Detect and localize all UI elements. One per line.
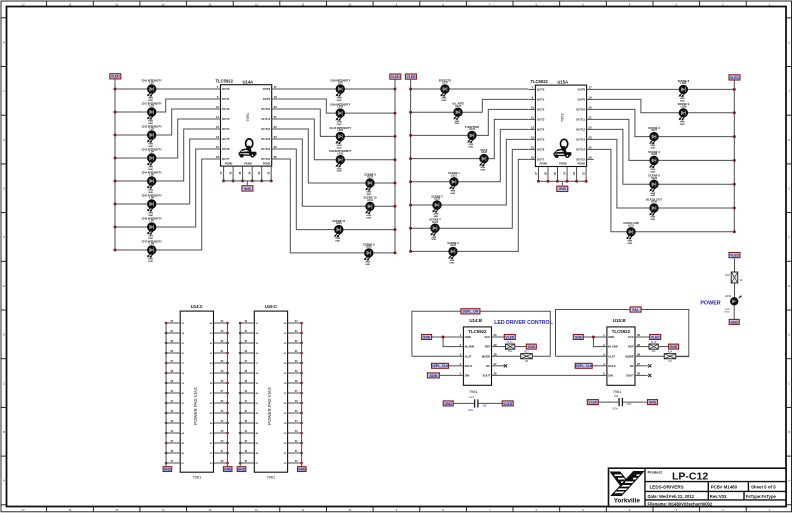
svg-text:TLC5922: TLC5922 xyxy=(530,79,548,84)
svg-text:10: 10 xyxy=(216,105,220,109)
svg-text:GND: GND xyxy=(366,194,371,196)
svg-text:19: 19 xyxy=(274,95,278,99)
svg-text:POWER: POWER xyxy=(700,301,720,307)
svg-text:GND: GND xyxy=(244,187,252,191)
svg-text:GND: GND xyxy=(298,468,306,472)
svg-text:100n: 100n xyxy=(612,408,618,411)
svg-text:LD3: LD3 xyxy=(149,128,154,131)
svg-text:GND: GND xyxy=(465,335,471,339)
svg-text:VCC: VCC xyxy=(628,335,634,339)
svg-text:SOUT: SOUT xyxy=(483,374,491,378)
resistor R14 1M xyxy=(664,351,676,363)
wire SOUT no-connect (U15:B) xyxy=(642,374,648,376)
svg-text:OUT4: OUT4 xyxy=(537,128,545,132)
svg-text:TLC5922: TLC5922 xyxy=(612,329,631,334)
svg-text:LD11: LD11 xyxy=(337,129,343,132)
node DSPL_CLK xyxy=(431,363,449,368)
wire XLAT (U15:B) xyxy=(556,355,600,357)
svg-text:GND: GND xyxy=(337,124,342,126)
svg-text:GND: GND xyxy=(650,171,655,173)
svg-text:GND: GND xyxy=(337,171,342,173)
svg-text:25: 25 xyxy=(589,146,593,150)
svg-text:GND: GND xyxy=(335,241,340,243)
svg-text:REF: REF xyxy=(628,345,634,349)
svg-text:U14A: U14A xyxy=(243,79,254,84)
wire NC no-connect (U15:B) xyxy=(642,365,648,367)
svg-text:LED DRIVER CONTROL: LED DRIVER CONTROL xyxy=(494,320,553,326)
svg-text:GND: GND xyxy=(431,239,436,241)
svg-text:GND: GND xyxy=(337,100,342,102)
svg-text:LD9: LD9 xyxy=(338,82,343,85)
svg-text:PGND: PGND xyxy=(225,161,233,165)
svg-text:GND: GND xyxy=(468,146,473,148)
svg-text:G: G xyxy=(3,188,5,191)
svg-text:OUT8: OUT8 xyxy=(578,88,586,92)
svg-text:G: G xyxy=(788,188,790,191)
svg-text:DSPL_CLK: DSPL_CLK xyxy=(575,364,593,368)
svg-text:REF: REF xyxy=(485,345,491,349)
svg-text:BLANK: BLANK xyxy=(465,345,475,349)
svg-text:26: 26 xyxy=(274,155,278,159)
Yorkville logo xyxy=(611,472,644,505)
svg-text:H: H xyxy=(788,139,790,142)
svg-text:LD26: LD26 xyxy=(680,105,687,108)
resistor R15 1K (vertical) xyxy=(725,272,743,283)
capacitor C21 100n (U14:B bypass) xyxy=(443,396,513,412)
svg-text:11: 11 xyxy=(216,115,219,119)
svg-text:19: 19 xyxy=(589,96,593,100)
node GND (R11) xyxy=(526,344,536,349)
svg-text:GND: GND xyxy=(731,320,739,324)
svg-text:OUT2: OUT2 xyxy=(537,108,545,112)
svg-text:POWER PAD VIAS: POWER PAD VIAS xyxy=(267,387,272,425)
svg-text:Date: Wed Feb 22, 2012: Date: Wed Feb 22, 2012 xyxy=(648,494,695,499)
LED LD17 EFFECTS xyxy=(439,78,451,102)
wire REF xyxy=(499,346,506,348)
wire GND to pin1/pin2 (U15:B) xyxy=(583,336,600,338)
svg-text:U15:C: U15:C xyxy=(265,304,277,309)
svg-text:OUT0: OUT0 xyxy=(537,88,545,92)
svg-text:OUT1: OUT1 xyxy=(537,98,545,102)
svg-text:OUT11: OUT11 xyxy=(576,118,585,122)
svg-text:29: 29 xyxy=(637,343,641,347)
svg-text:D: D xyxy=(788,334,790,337)
svg-text:BLANK: BLANK xyxy=(608,345,618,349)
svg-text:LD22: LD22 xyxy=(434,198,441,201)
svg-text:26: 26 xyxy=(637,372,641,376)
wire net OUT2 U14A left row 3 xyxy=(115,109,214,135)
svg-text:28: 28 xyxy=(637,352,641,356)
op-amp U14:B TLC5922 control section xyxy=(456,318,498,394)
LED LD5 CH4 INTENSITY xyxy=(142,170,162,194)
svg-text:GND: GND xyxy=(608,335,614,339)
svg-text:H: H xyxy=(3,139,5,142)
LED LD27 SCENE 3 xyxy=(648,126,660,150)
svg-text:GND: GND xyxy=(650,148,655,150)
wire net OUT0 U14A left row 1 xyxy=(115,88,214,90)
svg-text:Rev:V03: Rev:V03 xyxy=(710,494,727,499)
svg-text:DSPL_ON: DSPL_ON xyxy=(463,310,479,314)
svg-text:NC: NC xyxy=(486,364,490,368)
ground (power branch) xyxy=(729,319,739,324)
resistor R12 1M xyxy=(521,351,533,363)
LED LD18 ALL NITE xyxy=(452,102,464,126)
svg-text:25: 25 xyxy=(274,145,278,149)
node GND (U15:B pin1) xyxy=(573,335,583,340)
svg-text:OUT8: OUT8 xyxy=(263,87,271,91)
svg-text:23: 23 xyxy=(589,136,593,140)
svg-text:VCC: VCC xyxy=(484,335,490,339)
svg-text:LEDS-DRIVERS: LEDS-DRIVERS xyxy=(650,485,684,490)
LED LD24 SCENE 2 xyxy=(447,241,459,265)
svg-text:MODE: MODE xyxy=(625,354,634,358)
LED LD15 SCENE 11 xyxy=(332,219,345,243)
svg-text:301: 301 xyxy=(508,350,513,353)
svg-text:30: 30 xyxy=(637,333,641,337)
svg-text:GND: GND xyxy=(559,187,567,191)
svg-text:16: 16 xyxy=(531,156,535,160)
wire MODE (U15:B) xyxy=(642,355,664,357)
svg-text:OUT0: OUT0 xyxy=(222,87,230,91)
wire net OUT10 U15A right row 3 xyxy=(594,109,734,136)
LED LD10 CH9 INTENSITY xyxy=(330,103,350,127)
svg-text:OUT9: OUT9 xyxy=(263,97,271,101)
LED LD13 SCENE 9 xyxy=(364,172,376,196)
LED LD21 SCENE 1 xyxy=(448,171,460,195)
svg-text:LD8: LD8 xyxy=(149,243,154,246)
svg-text:SIN: SIN xyxy=(608,374,613,378)
svg-text:10: 10 xyxy=(531,106,535,110)
node GND (U14:B pin1) xyxy=(422,335,432,340)
svg-text:11: 11 xyxy=(531,116,534,120)
svg-text:Yorkville: Yorkville xyxy=(614,497,641,504)
svg-text:U15:B: U15:B xyxy=(613,318,626,323)
wire XLAT xyxy=(412,355,457,357)
wire MODE xyxy=(499,355,521,357)
svg-text:MODE: MODE xyxy=(482,354,491,358)
svg-text:GND: GND xyxy=(680,100,685,102)
svg-text:GND: GND xyxy=(164,468,172,472)
svg-text:PGND: PGND xyxy=(578,162,586,166)
svg-text:R-13: R-13 xyxy=(651,341,657,344)
svg-text:Sheet 5 of 5: Sheet 5 of 5 xyxy=(751,485,776,490)
svg-text:17: 17 xyxy=(589,86,593,90)
svg-text:LD25: LD25 xyxy=(680,82,687,85)
wire net OUT11 U14A right row 4 xyxy=(279,119,395,160)
LED LD8 CH7 INTENSITY xyxy=(142,239,162,263)
svg-text:301: 301 xyxy=(652,350,657,353)
svg-text:LD28: LD28 xyxy=(651,153,658,156)
svg-text:OUT1: OUT1 xyxy=(222,97,230,101)
LED LD31 AUDIO LOW xyxy=(623,221,639,245)
wire net OUT6 U15A left row 7 xyxy=(411,149,529,228)
svg-text:LD18: LD18 xyxy=(455,105,462,108)
wire power branch xyxy=(734,258,736,272)
svg-text:POWER PAD VIAS: POWER PAD VIAS xyxy=(193,387,198,425)
svg-text:LD7: LD7 xyxy=(149,220,154,223)
svg-text:GND: GND xyxy=(454,123,459,125)
svg-text:OUT13: OUT13 xyxy=(261,137,270,141)
connector U14:C power pad vias xyxy=(163,304,232,479)
svg-text:U15A: U15A xyxy=(557,80,568,85)
LED LD26 SCENE 9 xyxy=(678,102,690,126)
svg-text:GND: GND xyxy=(649,401,657,405)
svg-text:VLED: VLED xyxy=(111,75,120,79)
svg-text:GND: GND xyxy=(480,170,485,172)
svg-text:25V: 25V xyxy=(483,405,488,408)
svg-text:OUT10: OUT10 xyxy=(576,108,585,112)
svg-text:VLED: VLED xyxy=(391,75,400,79)
svg-text:R14: R14 xyxy=(668,351,673,354)
wire net OUT10 U14A right row 3 xyxy=(279,109,395,136)
svg-text:LD2: LD2 xyxy=(149,105,154,108)
svg-text:OUT13: OUT13 xyxy=(576,138,585,142)
svg-text:DSPL_CLK: DSPL_CLK xyxy=(431,364,449,368)
svg-text:7961: 7961 xyxy=(245,112,250,122)
wire net OUT9 U14A right row 2 xyxy=(279,99,395,113)
node VLED (U15:B VCC) xyxy=(650,335,661,340)
svg-text:7961: 7961 xyxy=(469,389,479,394)
svg-text:GND: GND xyxy=(423,335,431,339)
node DSPL_CLK (U15:B) xyxy=(575,363,593,368)
capacitor C26 100n (U15:B bypass) xyxy=(587,395,657,411)
svg-text:22: 22 xyxy=(589,126,593,130)
svg-text:GND: GND xyxy=(441,100,446,102)
svg-text:7961: 7961 xyxy=(560,112,565,122)
svg-text:12: 12 xyxy=(531,126,535,130)
svg-text:21: 21 xyxy=(589,116,593,120)
svg-text:PGND: PGND xyxy=(540,162,548,166)
svg-text:GND: GND xyxy=(337,147,342,149)
svg-text:1M: 1M xyxy=(668,360,671,363)
LED LD14 SCENE 10 xyxy=(364,196,378,220)
wire SCLK xyxy=(449,365,457,367)
svg-text:PGND: PGND xyxy=(244,161,252,165)
svg-text:GND: GND xyxy=(238,468,246,472)
wire REF (U15:B) xyxy=(642,346,649,348)
svg-text:OUT5: OUT5 xyxy=(222,137,230,141)
svg-text:LD12: LD12 xyxy=(337,152,344,155)
svg-text:OUT12: OUT12 xyxy=(576,128,585,132)
wire net OUT4 U15A left row 5 xyxy=(411,129,529,181)
svg-text:Product: Product xyxy=(648,471,663,475)
wire net OUT7 U15A left row 8 xyxy=(411,159,529,251)
LED LD12 CHAN INTENSITY xyxy=(329,149,352,173)
svg-text:LD13: LD13 xyxy=(367,176,374,179)
svg-text:SIN: SIN xyxy=(465,374,470,378)
wire net OUT13 U15A right row 6 xyxy=(594,139,734,208)
svg-text:20: 20 xyxy=(274,105,278,109)
node DSPL_ON xyxy=(461,309,480,314)
LED LD19 FUNCTION xyxy=(465,125,479,149)
svg-text:7961: 7961 xyxy=(266,474,276,479)
svg-text:16: 16 xyxy=(216,155,220,159)
svg-text:R15: R15 xyxy=(725,274,730,277)
svg-text:R12: R12 xyxy=(524,351,529,354)
wire net OUT3 U14A left row 4 xyxy=(115,119,214,158)
LED LD23 SCENE 7 xyxy=(429,218,441,242)
LED LD28 SCENE 4 xyxy=(648,150,660,174)
svg-text:LD23: LD23 xyxy=(432,221,439,224)
title block xyxy=(609,468,787,506)
svg-text:PGND: PGND xyxy=(559,162,567,166)
svg-text:GND: GND xyxy=(627,243,632,245)
LED LD16 SCENE 6 xyxy=(363,242,375,266)
svg-text:OUT5: OUT5 xyxy=(537,138,545,142)
svg-text:LD17: LD17 xyxy=(442,82,449,85)
svg-text:LD6: LD6 xyxy=(149,197,154,200)
svg-text:26: 26 xyxy=(493,372,497,376)
svg-text:26: 26 xyxy=(589,156,593,160)
svg-text:GND: GND xyxy=(449,262,454,264)
svg-text:OUT10: OUT10 xyxy=(261,107,270,111)
LED LD2 CH1 INTENSITY xyxy=(142,101,162,125)
svg-text:TLC5922: TLC5922 xyxy=(216,79,234,84)
svg-text:FsType:FsType: FsType:FsType xyxy=(746,494,777,499)
svg-text:OUT15: OUT15 xyxy=(261,157,270,161)
svg-text:SDIN: SDIN xyxy=(429,374,437,378)
LED LD3 CH2 INTENSITY xyxy=(142,124,162,148)
svg-text:20: 20 xyxy=(589,106,593,110)
svg-text:15: 15 xyxy=(531,146,535,150)
svg-text:OUT3: OUT3 xyxy=(222,117,230,121)
LED LD11 CH10 INTENSITY xyxy=(329,126,351,150)
wire SIN / SOUT chain to U15:B xyxy=(439,374,456,376)
wire net OUT4 U14A left row 5 xyxy=(115,129,214,181)
LED LD7 CH6 INTENSITY xyxy=(142,216,162,240)
svg-text:GND: GND xyxy=(680,124,685,126)
svg-text:LP-C12: LP-C12 xyxy=(672,470,708,482)
svg-text:OUT2: OUT2 xyxy=(222,107,230,111)
LED LD1 CH0 INTENSITY xyxy=(142,78,162,102)
svg-text:25V: 25V xyxy=(627,403,632,406)
svg-text:PGND: PGND xyxy=(263,161,271,165)
svg-text:LD4: LD4 xyxy=(149,151,154,154)
wire net OUT1 U15A left row 2 xyxy=(411,99,529,112)
wire net OUT7 U14A left row 8 xyxy=(115,159,214,250)
svg-text:OUT14: OUT14 xyxy=(261,147,270,151)
svg-text:GND: GND xyxy=(445,402,453,406)
svg-text:15: 15 xyxy=(216,145,220,149)
wire net OUT2 U15A left row 3 xyxy=(411,109,529,135)
connector U15:C power pad vias xyxy=(237,304,306,479)
svg-text:LD21: LD21 xyxy=(451,174,458,177)
svg-text:27: 27 xyxy=(493,362,497,366)
svg-text:28: 28 xyxy=(493,352,497,356)
svg-text:GND: GND xyxy=(670,345,678,349)
wire xyxy=(733,306,735,320)
op-amp U15A TLC5922 LED driver IC xyxy=(528,79,593,192)
svg-text:C21: C21 xyxy=(469,396,474,399)
svg-text:LD14: LD14 xyxy=(367,199,374,202)
svg-text:LD10: LD10 xyxy=(337,106,344,109)
resistor R11 301 xyxy=(506,341,515,353)
svg-text:GND: GND xyxy=(528,345,536,349)
svg-text:OUT3: OUT3 xyxy=(537,118,545,122)
svg-text:XLAT: XLAT xyxy=(465,354,472,358)
svg-text:LD27: LD27 xyxy=(651,129,658,132)
node SDIN xyxy=(427,373,439,378)
wire VCC to VLED (U15:B) xyxy=(642,336,650,338)
wire net OUT6 U14A left row 7 xyxy=(115,149,214,227)
svg-text:100n: 100n xyxy=(468,409,474,412)
svg-text:Filename: M1480V03schach0002: Filename: M1480V03schach0002 xyxy=(648,501,713,506)
svg-text:LD15: LD15 xyxy=(336,222,343,225)
svg-text:OUT12: OUT12 xyxy=(261,127,270,131)
wire net OUT8 U15A right row 1 xyxy=(594,88,734,90)
svg-text:LD29: LD29 xyxy=(651,177,658,180)
svg-text:LD32: LD32 xyxy=(725,294,732,298)
svg-text:12: 12 xyxy=(216,125,220,129)
LED LD25 SCENE 8 xyxy=(678,79,690,103)
resistor R13 301 xyxy=(649,341,658,353)
svg-text:SCLK: SCLK xyxy=(608,364,616,368)
wire net OUT1 U14A left row 2 xyxy=(115,99,214,112)
wire DSPL_ON rail (U14:B) xyxy=(412,311,550,356)
node VLED left bus (cluster 1) xyxy=(114,79,116,250)
svg-text:PAL: PAL xyxy=(632,308,638,312)
wire GND to pin1/pin2 xyxy=(432,336,457,338)
svg-text:LD16: LD16 xyxy=(366,246,373,249)
node PAL xyxy=(630,307,641,312)
svg-text:NC: NC xyxy=(630,364,634,368)
svg-text:VLED: VLED xyxy=(651,335,660,339)
LED LD32 POWER xyxy=(725,294,741,314)
wire net OUT9 U15A right row 2 xyxy=(594,99,734,112)
svg-text:OUT11: OUT11 xyxy=(261,117,270,121)
svg-text:7961: 7961 xyxy=(612,389,622,394)
node VLED right bus (cluster 1) xyxy=(394,79,396,253)
svg-text:OUT6: OUT6 xyxy=(537,148,545,152)
svg-text:R-11: R-11 xyxy=(507,341,513,344)
svg-text:LD30: LD30 xyxy=(651,201,658,204)
wire net OUT8 U14A right row 1 xyxy=(279,88,395,90)
wire net OUT13 U14A right row 6 xyxy=(279,139,395,206)
svg-text:TLC5922: TLC5922 xyxy=(468,329,487,334)
svg-text:SOUT: SOUT xyxy=(626,374,634,378)
svg-text:C: C xyxy=(788,382,790,385)
svg-text:OUT6: OUT6 xyxy=(222,147,230,151)
node GND (R13) xyxy=(669,344,679,349)
svg-text:OUT4: OUT4 xyxy=(222,127,230,131)
wire net OUT3 U15A left row 4 xyxy=(411,119,529,158)
wire NC no-connect xyxy=(499,365,505,367)
svg-text:7961: 7961 xyxy=(192,474,202,479)
svg-text:XLAT: XLAT xyxy=(608,354,615,358)
svg-text:1M: 1M xyxy=(525,360,528,363)
node VLED (power branch) xyxy=(729,253,740,258)
LED LD6 CH5 INTENSITY xyxy=(142,193,162,217)
svg-text:LD1: LD1 xyxy=(149,82,154,85)
LED LD30 BLACK OUT xyxy=(646,197,662,221)
svg-text:C: C xyxy=(3,382,5,385)
op-amp U15:B TLC5922 control section xyxy=(600,318,642,394)
wire SCLK (U15:B) xyxy=(592,365,600,367)
svg-text:VLED: VLED xyxy=(588,401,597,405)
svg-text:LD19: LD19 xyxy=(469,128,476,131)
svg-text:LD24: LD24 xyxy=(450,244,457,247)
wire net OUT11 U15A right row 4 xyxy=(594,119,734,160)
svg-text:GND: GND xyxy=(365,264,370,266)
svg-text:D: D xyxy=(3,334,5,337)
svg-text:VLED: VLED xyxy=(730,76,739,80)
svg-text:OUT9: OUT9 xyxy=(578,98,586,102)
wire net OUT12 U14A right row 5 xyxy=(279,129,395,183)
svg-text:U14:C: U14:C xyxy=(191,304,203,309)
svg-text:GND: GND xyxy=(148,261,153,263)
svg-text:VLED: VLED xyxy=(407,75,416,79)
svg-text:OUT15: OUT15 xyxy=(576,158,585,162)
